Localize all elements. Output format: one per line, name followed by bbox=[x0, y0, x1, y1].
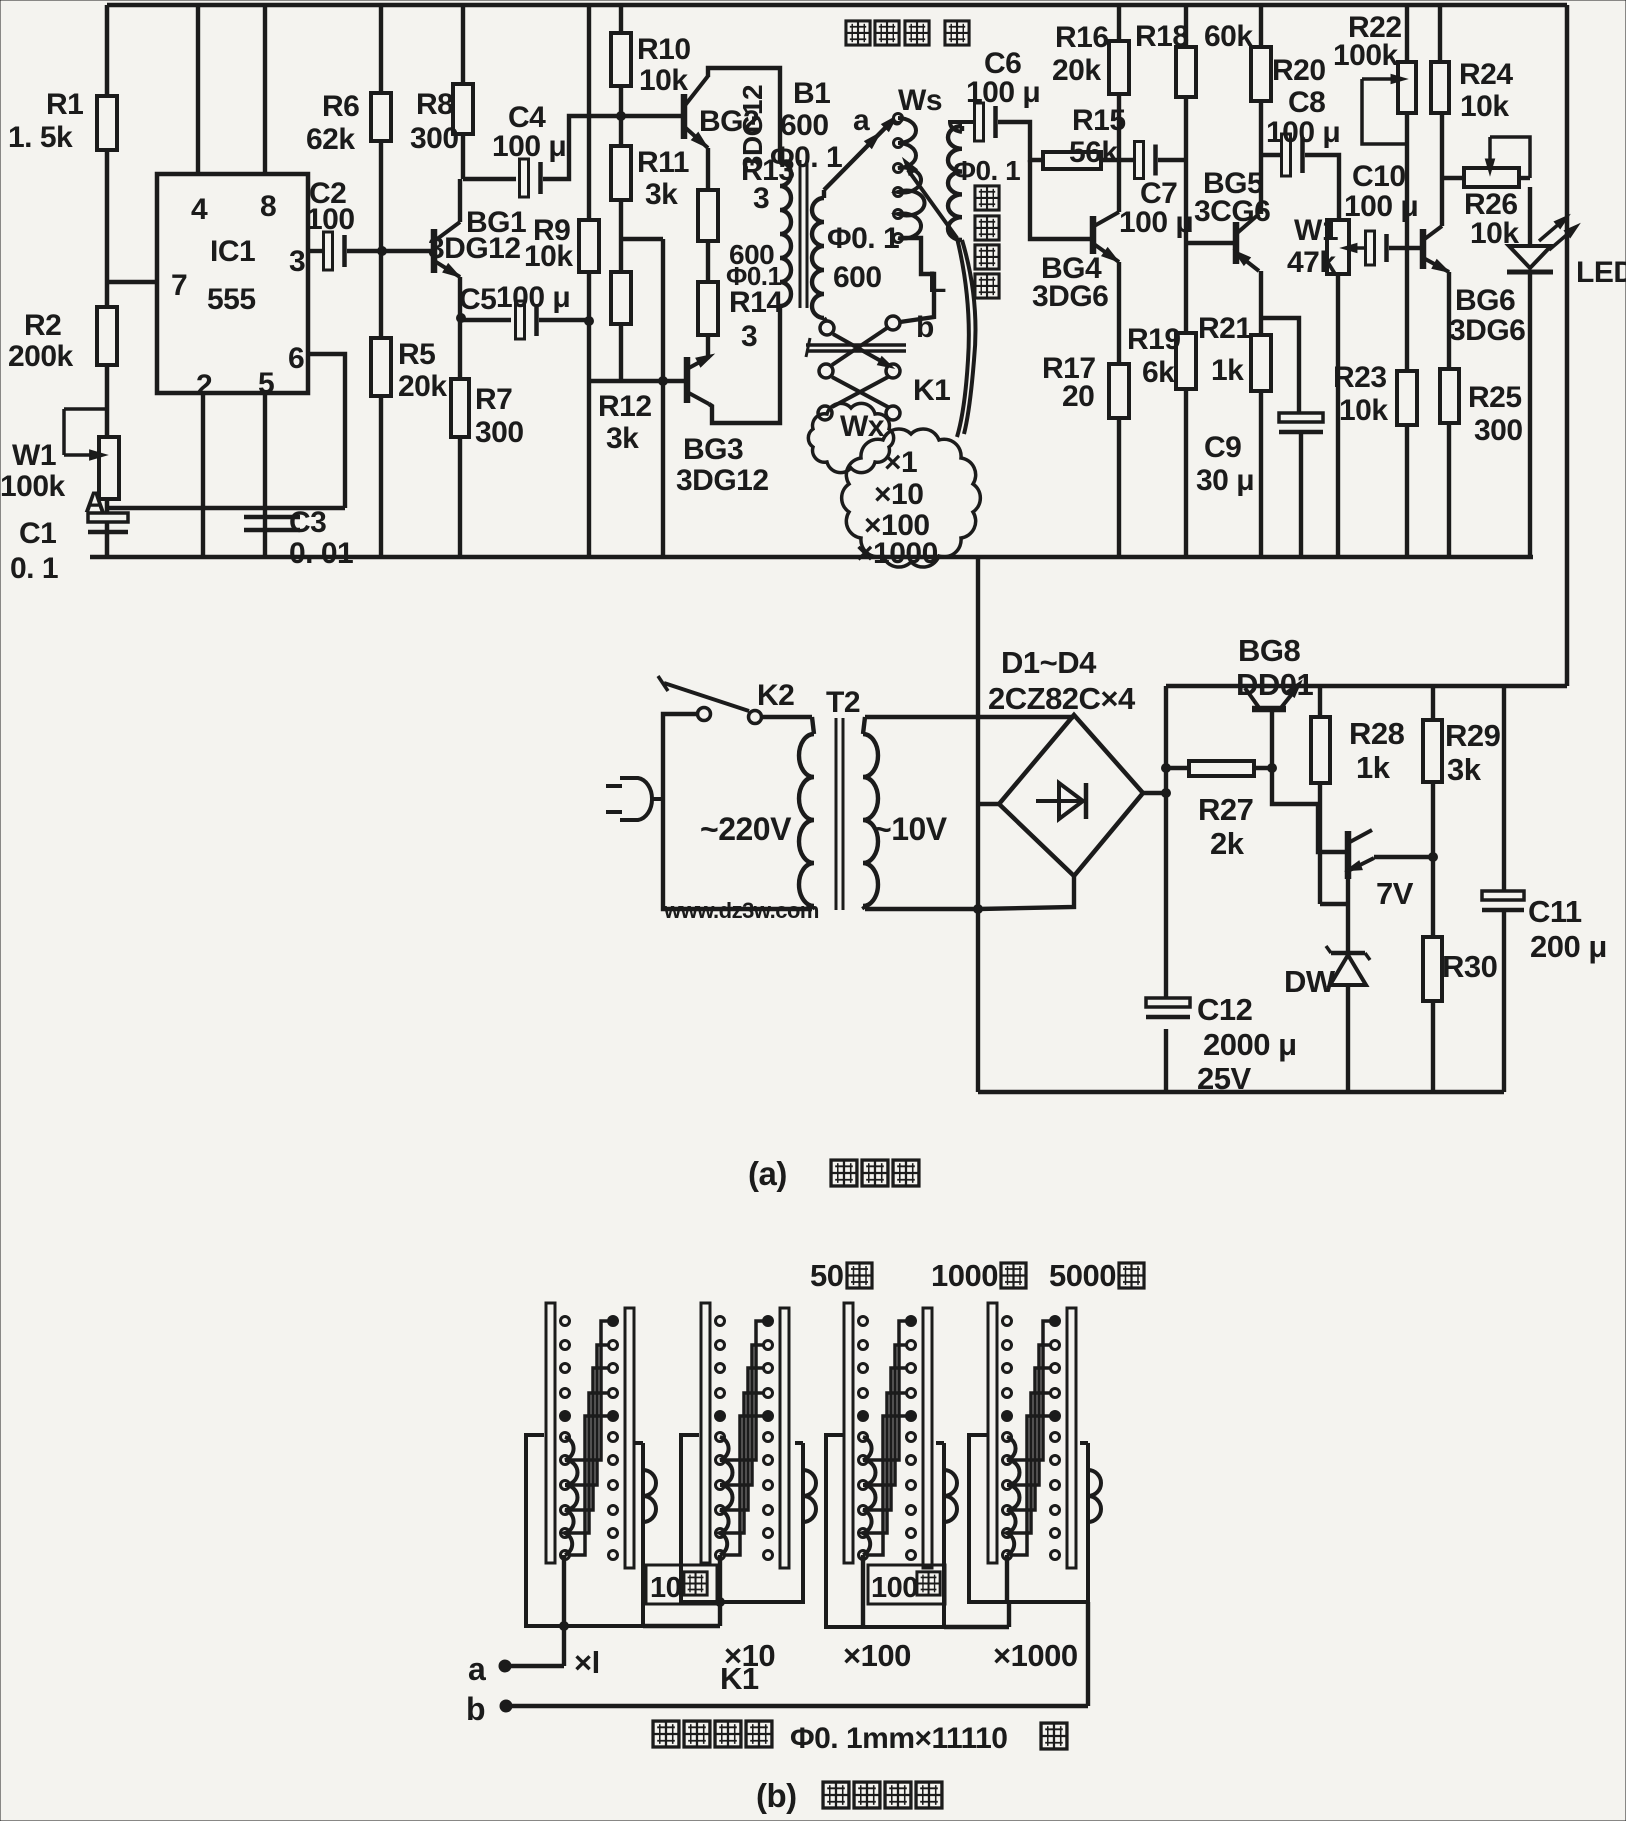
label standard coil (CJK) bbox=[846, 21, 969, 45]
wire: top supply rail bbox=[107, 3, 1567, 8]
svg-text:1000: 1000 bbox=[931, 1258, 998, 1293]
svg-text:300: 300 bbox=[1474, 414, 1523, 447]
svg-text:(a): (a) bbox=[748, 1155, 787, 1192]
svg-text:K2: K2 bbox=[757, 679, 794, 712]
svg-text:6: 6 bbox=[288, 342, 304, 375]
label R29 3k bbox=[1445, 718, 1501, 787]
svg-text:3DG6: 3DG6 bbox=[1449, 314, 1525, 347]
wire: secondary bottom to bridge bbox=[865, 876, 1074, 909]
wire: pin8 to rail bbox=[263, 5, 267, 174]
wire: R14 to BG3 emitter bbox=[706, 335, 710, 356]
resistor R19 bbox=[1176, 333, 1196, 389]
label R21 1k bbox=[1198, 312, 1252, 387]
wire: BG1 collector bbox=[458, 179, 462, 222]
wire: R17 to ground bbox=[1117, 418, 1121, 557]
resistor R6 bbox=[371, 93, 391, 141]
svg-text:K1: K1 bbox=[913, 374, 950, 407]
svg-text:62k: 62k bbox=[306, 123, 355, 156]
svg-text:300: 300 bbox=[475, 416, 524, 449]
label R7 300 bbox=[475, 383, 524, 449]
svg-text:8: 8 bbox=[260, 190, 276, 223]
svg-text:3: 3 bbox=[289, 245, 305, 278]
transistor Q: BG4 3DG6 bbox=[1093, 212, 1122, 266]
resistor R30 bbox=[1423, 937, 1442, 1092]
svg-text:R8: R8 bbox=[416, 88, 453, 121]
svg-text:200k: 200k bbox=[8, 340, 74, 373]
label R17 20 bbox=[1042, 352, 1096, 413]
LED D (indicator) bbox=[1507, 187, 1582, 557]
label R11 3k bbox=[637, 146, 689, 211]
wire: BG6 emitter to R25 bbox=[1447, 272, 1451, 369]
wire: C10 to BG6 base bbox=[1389, 246, 1421, 250]
resistor R15 bbox=[1043, 152, 1101, 169]
label BG4 3DG6 bbox=[1032, 252, 1108, 313]
svg-text:3k: 3k bbox=[606, 422, 639, 455]
wire: R6-R5 column bbox=[379, 5, 383, 557]
svg-text:B1: B1 bbox=[793, 77, 830, 110]
junction BG1 emitter/C5/R7 bbox=[457, 314, 466, 323]
label R6 62k bbox=[306, 90, 359, 156]
svg-text:(b): (b) bbox=[756, 1777, 797, 1814]
svg-text:R2: R2 bbox=[24, 309, 61, 342]
wire: induction coil top bbox=[960, 126, 964, 131]
svg-text:R6: R6 bbox=[322, 90, 359, 123]
resistor R13 bbox=[698, 190, 718, 241]
pin 7 bbox=[171, 269, 187, 302]
wire: C9 branch bbox=[1261, 318, 1299, 412]
svg-text:10: 10 bbox=[650, 1572, 681, 1604]
label 10 turns (boxed) bbox=[646, 1565, 717, 1604]
label 5000 turns bbox=[1049, 1258, 1144, 1293]
resistor R10 bbox=[611, 33, 631, 86]
svg-text:100 μ: 100 μ bbox=[1266, 116, 1340, 149]
label B1 600 phi0.1 bbox=[770, 77, 842, 174]
winding Wx cloud bbox=[808, 403, 893, 472]
svg-text:R29: R29 bbox=[1445, 718, 1501, 753]
potentiometer R22 100k bbox=[1362, 62, 1416, 144]
resistor R7 bbox=[451, 379, 469, 437]
junction at C5/R9 bbox=[585, 317, 594, 326]
svg-text:BG8: BG8 bbox=[1238, 633, 1301, 668]
svg-text:www.dz3w.com: www.dz3w.com bbox=[663, 898, 819, 923]
svg-text:Φ0. 1: Φ0. 1 bbox=[827, 222, 899, 255]
wire: R8 column to C4 corner bbox=[461, 5, 465, 179]
label R22 100k bbox=[1333, 11, 1402, 72]
resistor R1 bbox=[97, 96, 117, 150]
resistor R29 bbox=[1423, 686, 1442, 937]
svg-text:56k: 56k bbox=[1069, 136, 1118, 169]
label 600 phi0.1 (primary) bbox=[726, 239, 782, 291]
pin 5 bbox=[258, 367, 274, 400]
svg-text:×1: ×1 bbox=[884, 446, 917, 479]
svg-text:R18: R18 bbox=[1135, 20, 1189, 53]
junction x1 tap bbox=[560, 1622, 569, 1631]
svg-text:D1~D4: D1~D4 bbox=[1001, 645, 1097, 680]
svg-text:C8: C8 bbox=[1288, 86, 1325, 119]
pin 3 bbox=[289, 245, 305, 278]
wire: C7 to R18 column bbox=[1158, 158, 1186, 162]
wire: right border down to regulator rail bbox=[1565, 5, 1570, 686]
pin 6 bbox=[288, 342, 304, 375]
svg-text:R1: R1 bbox=[46, 88, 83, 121]
svg-text:3k: 3k bbox=[645, 178, 678, 211]
caption (b) standard coil bbox=[756, 1777, 942, 1814]
svg-text:100: 100 bbox=[871, 1572, 918, 1604]
resistor R25 bbox=[1440, 369, 1459, 423]
resistor R28 bbox=[1311, 686, 1348, 904]
wire: BG3 base drive bbox=[589, 379, 685, 383]
resistor R24 bbox=[1431, 62, 1449, 113]
svg-text:5000: 5000 bbox=[1049, 1258, 1116, 1293]
label R13 3 bbox=[741, 154, 795, 215]
svg-text:R5: R5 bbox=[398, 338, 435, 371]
wire: C2 to BG1 base bbox=[347, 249, 431, 253]
pin 8 bbox=[260, 190, 276, 223]
wire: pin3 output to C2 bbox=[308, 249, 322, 253]
svg-text:C10: C10 bbox=[1352, 160, 1406, 193]
resistor R9 bbox=[579, 220, 599, 272]
label R15 56k bbox=[1069, 104, 1126, 169]
standard coil module x1000 bbox=[969, 1303, 1101, 1602]
transformer B1 core bbox=[800, 160, 807, 308]
svg-text:555: 555 bbox=[207, 283, 256, 316]
svg-text:×100: ×100 bbox=[843, 1638, 911, 1673]
label x1000 bbox=[856, 537, 938, 570]
wire: bridge + output bbox=[1143, 791, 1166, 795]
label W1 100k bbox=[0, 439, 66, 503]
svg-text:R16: R16 bbox=[1055, 21, 1109, 54]
svg-text:20k: 20k bbox=[398, 370, 447, 403]
svg-text:Φ0. 1mm×11110: Φ0. 1mm×11110 bbox=[790, 1722, 1008, 1755]
resistor R17 bbox=[1109, 364, 1129, 418]
svg-text:2CZ82C×4: 2CZ82C×4 bbox=[988, 681, 1136, 716]
svg-text:b: b bbox=[466, 1691, 485, 1727]
wire: R18-R19 column bbox=[1184, 5, 1188, 557]
pin 4 bbox=[191, 193, 208, 226]
svg-text:100: 100 bbox=[306, 203, 355, 236]
caption standard coil spec bbox=[653, 1721, 1067, 1755]
svg-text:C1: C1 bbox=[19, 517, 56, 550]
standard coil module x10 bbox=[681, 1303, 816, 1602]
wire: R15 to C7 bbox=[1101, 158, 1137, 162]
svg-text:R11: R11 bbox=[637, 146, 689, 179]
label R26 10k (label) bbox=[1464, 188, 1519, 250]
junction bridge out bbox=[1162, 789, 1171, 798]
diode bridge D1-D4 bbox=[978, 715, 1143, 876]
wire: BG3 collector to B1 primary bbox=[709, 306, 780, 423]
svg-text:BG6: BG6 bbox=[1455, 284, 1515, 317]
label C7 100u bbox=[1119, 177, 1193, 239]
capacitor C3 bbox=[244, 515, 300, 520]
label R16 20k bbox=[1052, 21, 1109, 87]
wire: regulator output rail bbox=[1166, 684, 1567, 689]
svg-text:50: 50 bbox=[810, 1258, 843, 1293]
wire: x1000 tap bbox=[1005, 1555, 1009, 1602]
label BG8 DD01 bbox=[1236, 633, 1314, 702]
switch K2 bbox=[658, 676, 762, 724]
wire: pin7 to left column bbox=[107, 280, 157, 284]
svg-text:7: 7 bbox=[171, 269, 187, 302]
wire: R11 tap to emitter column bbox=[621, 237, 663, 241]
wire: emitter column x663 bbox=[661, 239, 665, 557]
wire: R16 to rail bbox=[1117, 5, 1121, 41]
wire: secondary tap wiper to a bbox=[824, 112, 901, 198]
wire: R9 column bbox=[587, 5, 591, 557]
capacitor C4 bbox=[520, 159, 529, 197]
svg-text:100 μ: 100 μ bbox=[966, 76, 1040, 109]
wire: C4 left branch bbox=[463, 177, 516, 181]
switch K1 cross links bbox=[832, 328, 896, 407]
wire: m1 bottom to x10 tap bbox=[643, 1624, 720, 1628]
svg-text:1k: 1k bbox=[1356, 750, 1391, 785]
wire: BG6 collector to R24 bbox=[1440, 113, 1444, 226]
svg-text:BG3: BG3 bbox=[683, 433, 743, 466]
label x100 tap bbox=[843, 1638, 911, 1673]
label BG2 bbox=[699, 105, 759, 138]
resistor R8 bbox=[453, 84, 473, 134]
label R5 20k bbox=[398, 338, 447, 403]
svg-text:LED: LED bbox=[1576, 256, 1626, 289]
label C12 2000u 25V bbox=[1197, 992, 1297, 1096]
svg-text:300: 300 bbox=[410, 122, 459, 155]
svg-text:R24: R24 bbox=[1459, 58, 1513, 91]
label C5 100u bbox=[459, 281, 570, 316]
svg-text:R20: R20 bbox=[1272, 54, 1326, 87]
label x10 tap bbox=[724, 1638, 775, 1673]
svg-text:C9: C9 bbox=[1204, 431, 1241, 464]
transformer T2 primary bbox=[799, 717, 814, 909]
svg-text:Φ0. 1: Φ0. 1 bbox=[953, 155, 1020, 186]
wire: R15 base feedback loop bbox=[1030, 160, 1091, 239]
svg-text:DD01: DD01 bbox=[1236, 667, 1314, 702]
svg-text:Ws: Ws bbox=[898, 84, 942, 117]
multiplier cloud bbox=[842, 429, 981, 567]
svg-text:×1000: ×1000 bbox=[993, 1638, 1078, 1673]
label ~220V bbox=[700, 811, 792, 847]
label R18 60k bbox=[1135, 20, 1253, 53]
wire: ground rail of oscillator section bbox=[90, 555, 1533, 560]
label R10 10k bbox=[637, 33, 691, 97]
wire: R20-BG5-R21 column bbox=[1259, 5, 1263, 557]
svg-text:DW: DW bbox=[1284, 964, 1336, 999]
junction m2 bottom/x10 tap bbox=[716, 1598, 725, 1607]
svg-text:10k: 10k bbox=[1339, 394, 1388, 427]
standard coil Ws winding bbox=[898, 118, 925, 239]
svg-text:a: a bbox=[853, 104, 870, 137]
wire: mains loop bbox=[663, 714, 812, 909]
resistor R12 bbox=[611, 272, 631, 324]
svg-text:W1: W1 bbox=[12, 439, 56, 472]
wire: BG5 base link bbox=[1186, 241, 1233, 245]
svg-text:3k: 3k bbox=[1447, 752, 1482, 787]
svg-text:20: 20 bbox=[1062, 380, 1094, 413]
wire: pin5 to ground through C3 bbox=[263, 393, 267, 557]
svg-text:600: 600 bbox=[833, 261, 882, 294]
transistor Q: BG3 3DG12 bbox=[687, 350, 716, 404]
label R1 1.5k bbox=[8, 88, 83, 154]
svg-text:R12: R12 bbox=[598, 390, 652, 423]
label C10 100u bbox=[1344, 160, 1418, 223]
svg-text:R19: R19 bbox=[1127, 323, 1181, 356]
wire: R26 to LED column bbox=[1519, 176, 1530, 180]
label 50 turns bbox=[810, 1258, 872, 1293]
svg-text:C12: C12 bbox=[1197, 992, 1252, 1027]
wire: R25 to ground bbox=[1447, 423, 1451, 557]
wire: x1 tap to a bbox=[508, 1555, 564, 1666]
transistor Q: BG2 3DG12 bbox=[684, 76, 711, 152]
wire: R24 to rail bbox=[1438, 5, 1442, 62]
svg-text:R25: R25 bbox=[1468, 381, 1522, 414]
label x1 tap bbox=[574, 1645, 600, 1680]
capacitor C6 bbox=[975, 103, 984, 141]
svg-text:C3: C3 bbox=[289, 506, 326, 539]
label R25 300 bbox=[1468, 381, 1523, 447]
junction BG2 base wire bbox=[617, 112, 626, 121]
wire: BG2 collector loop top bbox=[708, 68, 780, 162]
resistor R23 bbox=[1397, 371, 1417, 425]
svg-text:R27: R27 bbox=[1198, 792, 1253, 827]
svg-text:×10: ×10 bbox=[874, 478, 923, 511]
svg-text:100k: 100k bbox=[0, 470, 66, 503]
resistor R2 bbox=[97, 307, 117, 365]
svg-text:60k: 60k bbox=[1204, 20, 1253, 53]
capacitor C5 bbox=[516, 301, 525, 339]
svg-text:1. 5k: 1. 5k bbox=[8, 121, 73, 154]
svg-text:Φ0.1: Φ0.1 bbox=[726, 261, 782, 291]
capacitor C11 with column bbox=[1482, 686, 1524, 1092]
wire: x10 tap bbox=[718, 1555, 722, 1626]
label 100 turns (boxed) bbox=[868, 1565, 945, 1604]
svg-text:100 μ: 100 μ bbox=[492, 130, 566, 163]
svg-text:×1000: ×1000 bbox=[856, 537, 938, 570]
transformer T2 core bbox=[836, 718, 843, 910]
svg-text:R28: R28 bbox=[1349, 716, 1405, 751]
wire: R10-R11-R12 column bbox=[619, 5, 623, 381]
switch K1 contacts bbox=[818, 321, 900, 420]
label R24 10k bbox=[1459, 58, 1513, 123]
wire: power ground rail bbox=[978, 1090, 1504, 1095]
resistor R16 bbox=[1109, 41, 1129, 94]
transformer B1 secondary winding (600) bbox=[812, 198, 824, 318]
svg-text:R7: R7 bbox=[475, 383, 512, 416]
svg-text:4: 4 bbox=[191, 193, 208, 226]
label C1 0.1 bbox=[10, 517, 58, 585]
svg-text:100 μ: 100 μ bbox=[1119, 206, 1193, 239]
transformer B1 primary winding bbox=[780, 162, 791, 306]
svg-text:R21: R21 bbox=[1198, 312, 1252, 345]
svg-text:1k: 1k bbox=[1211, 354, 1244, 387]
label W1 47k bbox=[1287, 214, 1338, 279]
wire: BG4 emitter to R17 bbox=[1117, 262, 1121, 364]
label C6 100u bbox=[966, 47, 1040, 109]
standard coil module x1 bbox=[526, 1303, 656, 1626]
label 600 phi0.1 (secondary) bbox=[827, 222, 899, 294]
induction coil L winding bbox=[948, 126, 962, 240]
resistor R20 bbox=[1251, 47, 1271, 101]
svg-text:3DG12: 3DG12 bbox=[428, 232, 521, 265]
svg-text:W1: W1 bbox=[1294, 214, 1338, 247]
svg-text:~10V: ~10V bbox=[873, 811, 948, 847]
node a bbox=[853, 104, 901, 137]
junction regulator emitter / R29-R30 bbox=[1429, 853, 1438, 862]
label x100 bbox=[864, 509, 930, 542]
switch K1 common bar bbox=[806, 338, 906, 357]
svg-text:2k: 2k bbox=[1210, 826, 1245, 861]
svg-text:6k: 6k bbox=[1142, 356, 1175, 389]
svg-text:R30: R30 bbox=[1442, 949, 1497, 984]
wire: DC positive column bbox=[1164, 686, 1168, 1092]
wire: C6 to R15 bbox=[998, 122, 1043, 160]
label ~10V bbox=[873, 811, 948, 847]
terminal a bbox=[468, 1651, 510, 1687]
wire: AC section drop from ground rail bbox=[976, 557, 980, 1092]
svg-text:a: a bbox=[468, 1651, 486, 1687]
transistor Q: series regulator 7V bbox=[1344, 830, 1433, 904]
junction BG8 base / R27 bbox=[1268, 764, 1277, 773]
wire: R7 column bbox=[458, 320, 462, 557]
label BG1 3DG12 bbox=[428, 206, 526, 265]
wire: Ws bottom to L and b bbox=[900, 238, 934, 322]
svg-text:100 μ: 100 μ bbox=[496, 281, 570, 314]
label BG5 3CG6 bbox=[1194, 167, 1270, 228]
svg-text:2000 μ: 2000 μ bbox=[1203, 1027, 1297, 1062]
wire: secondary bottom to K1 bbox=[824, 318, 826, 321]
wire: node A rail bbox=[107, 506, 345, 510]
svg-text:0. 01: 0. 01 bbox=[289, 537, 353, 570]
svg-text:25V: 25V bbox=[1197, 1061, 1251, 1096]
svg-text:100k: 100k bbox=[1333, 39, 1399, 72]
node b bbox=[886, 311, 934, 344]
capacitor C10 bbox=[1366, 231, 1375, 265]
svg-text:×l: ×l bbox=[574, 1645, 600, 1680]
wire: pin4 to rail bbox=[196, 5, 200, 174]
svg-text:0. 1: 0. 1 bbox=[10, 552, 58, 585]
capacitor C1 bbox=[88, 513, 128, 522]
label R28 1k bbox=[1349, 716, 1405, 785]
svg-text:3: 3 bbox=[753, 182, 769, 215]
resistor R11 bbox=[611, 146, 631, 200]
wire: pin2 to ground bbox=[201, 393, 205, 557]
label 555 bbox=[207, 283, 256, 316]
potentiometer W1 (oscillator) bbox=[64, 409, 119, 499]
standard coil module x100 bbox=[826, 1303, 957, 1627]
terminal b bbox=[466, 1691, 511, 1727]
svg-text:200 μ: 200 μ bbox=[1530, 929, 1607, 964]
label R20 10k... (R20) bbox=[1272, 54, 1326, 87]
label C8 100u bbox=[1266, 86, 1340, 149]
label C2 100 bbox=[306, 177, 355, 236]
label 1000 turns bbox=[931, 1258, 1026, 1293]
label R23 10k bbox=[1333, 361, 1388, 427]
wire: left border / left supply column bbox=[105, 5, 110, 557]
label C4 100u bbox=[492, 101, 566, 163]
label induction coil (CJK vertical) bbox=[975, 186, 999, 298]
mains plug bbox=[606, 778, 663, 820]
potentiometer W1 47k bbox=[1327, 220, 1367, 274]
junction base drive bbox=[659, 377, 668, 386]
wire: BG1 emitter to C5/R7 bbox=[460, 277, 511, 320]
svg-text:20k: 20k bbox=[1052, 54, 1101, 87]
wire: m3 bottom to m4 riser bbox=[944, 1602, 1009, 1627]
label D1~D4 2CZ82C x4 bbox=[988, 645, 1136, 716]
wire: R22-R23 column bbox=[1405, 5, 1409, 557]
resistor R5 bbox=[371, 338, 391, 396]
wire: secondary top to bridge bbox=[865, 715, 1074, 719]
label R12 3k bbox=[598, 390, 652, 455]
svg-text:7V: 7V bbox=[1376, 876, 1414, 911]
svg-text:600: 600 bbox=[780, 109, 829, 142]
wire: BG4 collector to R16 bbox=[1117, 95, 1121, 212]
